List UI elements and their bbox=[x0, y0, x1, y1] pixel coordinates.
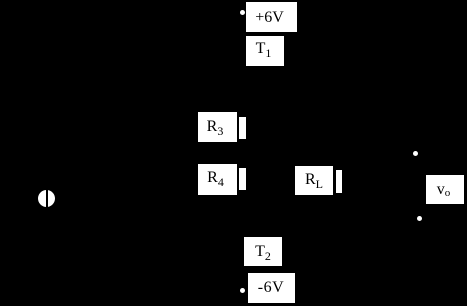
transistor T2 label bbox=[244, 237, 282, 266]
output node dot (top) bbox=[413, 151, 418, 156]
transistor T1 label bbox=[246, 36, 284, 66]
node dot at -6V supply bbox=[240, 288, 245, 293]
node dot at +6V supply bbox=[240, 10, 245, 15]
resistor R3 terminal bar bbox=[239, 117, 246, 139]
supply label +6V bbox=[246, 2, 297, 32]
signal source internal stripe bbox=[46, 190, 48, 207]
load resistor RL terminal bar bbox=[336, 170, 342, 193]
output voltage vo label bbox=[426, 175, 464, 204]
resistor R4 terminal bar bbox=[239, 168, 246, 190]
output node dot (bottom) bbox=[417, 216, 422, 221]
resistor R3 label bbox=[198, 112, 237, 142]
load resistor RL label bbox=[295, 166, 333, 195]
AC signal source Vs (circle with stripe) bbox=[38, 190, 55, 207]
resistor R4 label bbox=[198, 164, 237, 195]
supply label -6V bbox=[248, 273, 295, 303]
